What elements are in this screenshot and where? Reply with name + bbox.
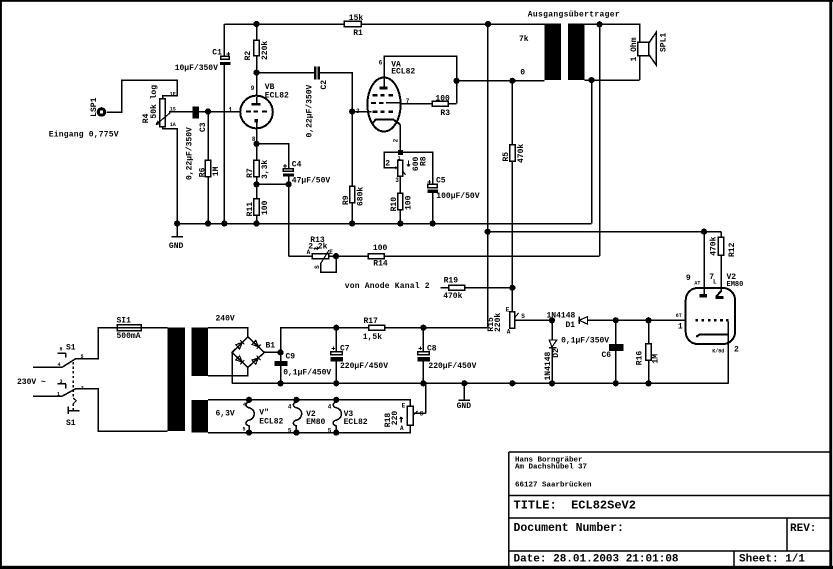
wire feedback riser xyxy=(599,24,601,256)
svg-text:2: 2 xyxy=(385,160,390,169)
svg-text:15k: 15k xyxy=(349,14,364,23)
svg-text:1N4148: 1N4148 xyxy=(547,312,576,321)
resistor R11 100 xyxy=(246,199,270,224)
capacitor C7 220uF/450V xyxy=(330,328,388,384)
junction feedback tap xyxy=(596,21,602,27)
svg-text:C3: C3 xyxy=(199,122,208,132)
svg-text:1: 1 xyxy=(229,107,233,114)
wire LSP1 to poti top xyxy=(106,80,177,112)
svg-text:6: 6 xyxy=(60,347,63,353)
svg-text:1,5k: 1,5k xyxy=(363,333,382,342)
wire secondary gnd to bus xyxy=(591,80,593,223)
resistor R6 1M xyxy=(199,112,221,224)
svg-text:GND: GND xyxy=(457,402,472,411)
potentiometer R13 2,2k xyxy=(307,236,336,272)
wire switch to transformer primary bottom xyxy=(76,389,167,432)
svg-text:6T: 6T xyxy=(676,313,682,319)
wire HV secondary to bridge AC2 xyxy=(208,367,248,375)
wire V8 cathode down xyxy=(256,128,258,160)
svg-text:R16: R16 xyxy=(636,351,645,366)
wire B+ rail after R17 xyxy=(385,327,488,329)
junction R13 wiper node xyxy=(333,253,339,259)
wire wiper to C3 xyxy=(169,111,193,113)
transformer TR1 heater winding 6,3V xyxy=(191,400,208,433)
svg-text:3: 3 xyxy=(395,177,399,184)
junction D2 bottom rail xyxy=(549,380,555,386)
capacitor C5 100uF/50V xyxy=(400,152,480,223)
svg-text:1: 1 xyxy=(398,156,401,162)
junction B+ riser rail xyxy=(485,21,491,27)
transformer output secondary xyxy=(568,24,584,80)
junction cathode pentode node xyxy=(398,150,403,155)
resistor R19 470k xyxy=(443,276,512,300)
wire B+ rail y24 xyxy=(224,23,344,25)
svg-text:R3: R3 xyxy=(440,109,450,118)
junction C6 tap xyxy=(613,317,619,323)
heater V'' ECL82 xyxy=(243,397,284,436)
svg-text:AT: AT xyxy=(694,280,700,286)
svg-text:4: 4 xyxy=(243,402,246,408)
wire bridge plus to node xyxy=(264,351,280,353)
svg-text:R5: R5 xyxy=(502,152,511,162)
transformer TR1 primary winding xyxy=(167,328,185,431)
potentiometer R4 50k log xyxy=(142,85,176,128)
resistor R5 470k xyxy=(502,81,526,312)
svg-text:C9: C9 xyxy=(286,352,296,361)
svg-text:Eingang 0,775V: Eingang 0,775V xyxy=(49,130,119,139)
svg-text:470k: 470k xyxy=(710,236,719,255)
junction R16 tap xyxy=(645,317,651,323)
junction R10 bottom xyxy=(397,220,403,226)
svg-text:S1: S1 xyxy=(66,344,76,353)
diode B1b xyxy=(252,340,261,349)
svg-text:1: 1 xyxy=(678,322,683,331)
svg-text:R17: R17 xyxy=(364,317,379,326)
svg-text:GND: GND xyxy=(169,242,184,251)
junction secondary gnd tap xyxy=(588,77,594,83)
junction C1 bottom xyxy=(221,220,227,226)
junction R19 R5 R15 node xyxy=(509,285,515,291)
svg-text:1 Ohm: 1 Ohm xyxy=(630,37,639,61)
capacitor C3 0,22uF/350V xyxy=(186,106,209,180)
pad LSP1 xyxy=(90,97,106,116)
svg-text:5: 5 xyxy=(243,427,246,433)
svg-text:A: A xyxy=(400,425,404,432)
wire 0V rail xyxy=(232,382,728,384)
switch S1 xyxy=(57,344,84,429)
svg-text:von Anode Kanal 2: von Anode Kanal 2 xyxy=(345,282,430,291)
diode B1c xyxy=(236,356,245,365)
svg-text:Am Dachshübel 37: Am Dachshübel 37 xyxy=(515,464,587,472)
svg-text:220: 220 xyxy=(391,411,400,426)
svg-text:R8: R8 xyxy=(420,156,429,166)
trimmer R8 600 xyxy=(384,152,428,193)
svg-text:5: 5 xyxy=(288,427,292,434)
svg-text:10µF/350V: 10µF/350V xyxy=(175,64,218,73)
svg-text:0,1µF/350V: 0,1µF/350V xyxy=(561,337,609,346)
svg-text:4: 4 xyxy=(58,362,61,368)
svg-text:240V: 240V xyxy=(216,314,235,323)
svg-text:0: 0 xyxy=(520,69,525,78)
svg-text:0,1µF/450V: 0,1µF/450V xyxy=(283,369,331,378)
capacitor C8 220uF/450V xyxy=(417,328,476,384)
svg-text:Date: 28.01.2003 21:01:08: Date: 28.01.2003 21:01:08 xyxy=(514,554,679,566)
svg-text:220k: 220k xyxy=(261,41,270,60)
wire secondary bottom xyxy=(584,79,639,81)
wire plus node up to B+ rail xyxy=(281,328,369,353)
capacitor C4 47uF/50V xyxy=(283,160,330,256)
svg-text:3: 3 xyxy=(60,379,63,385)
svg-text:Document Number:: Document Number: xyxy=(514,522,624,535)
wire cathode node to C4 xyxy=(257,144,289,169)
svg-text:100: 100 xyxy=(261,200,270,215)
junction D2 tap xyxy=(549,317,555,323)
diode D1 1N4148 xyxy=(547,312,687,330)
wire bridge minus to 0V rail xyxy=(231,352,233,383)
wire heater rail top xyxy=(208,400,410,407)
diode D2 1N4148 xyxy=(544,320,561,383)
resistor R17 1,5k xyxy=(363,317,385,342)
diode B1d xyxy=(252,356,261,365)
svg-text:ECL82: ECL82 xyxy=(259,417,283,426)
junction R2 bottom C2 node xyxy=(253,70,259,76)
wire anode node to C2 xyxy=(257,72,315,74)
resistor R9 680k xyxy=(342,112,366,224)
transformer output Ausgangsuebertrager primary xyxy=(545,24,561,80)
svg-text:100µF/50V: 100µF/50V xyxy=(436,192,479,201)
potentiometer R18 220 humdinger xyxy=(384,383,425,432)
svg-text:680k: 680k xyxy=(357,187,366,206)
resistor R3 100 xyxy=(432,94,456,117)
svg-text:R14: R14 xyxy=(373,259,388,268)
svg-text:6: 6 xyxy=(379,60,383,67)
svg-text:0,22µF/350V: 0,22µF/350V xyxy=(186,127,195,180)
junction VA grid node xyxy=(349,108,355,114)
wire fuse to transformer primary xyxy=(141,327,167,329)
trimmer R15 220k xyxy=(487,306,552,335)
tube VB ECL82 triode xyxy=(229,83,289,143)
resistor R1 15k xyxy=(344,14,363,38)
svg-text:500mA: 500mA xyxy=(117,332,141,341)
svg-text:C7: C7 xyxy=(340,344,350,353)
svg-text:1E: 1E xyxy=(170,92,176,98)
svg-text:D2: D2 xyxy=(552,348,561,358)
resistor R16 1M xyxy=(636,320,661,383)
svg-text:R6: R6 xyxy=(199,167,208,177)
wire mains input N xyxy=(33,395,63,397)
svg-text:S: S xyxy=(314,265,321,269)
wire C3 to V8 grid xyxy=(199,111,241,113)
junction EM80 supply tap xyxy=(485,229,491,235)
diode B1a xyxy=(236,340,245,349)
title block frame xyxy=(509,452,830,566)
svg-text:47µF/50V: 47µF/50V xyxy=(292,177,331,186)
capacitor C2 0,22uF/350V xyxy=(305,66,329,137)
junction screen rail xyxy=(453,78,459,84)
junction C9 bottom xyxy=(277,380,283,386)
junction V8 anode rail xyxy=(253,21,259,27)
svg-text:R19: R19 xyxy=(444,276,459,285)
capacitor C1 10uF/350V xyxy=(175,24,231,224)
wire R14 to secondary feedback riser xyxy=(384,255,599,257)
svg-text:D1: D1 xyxy=(566,321,576,330)
fuse SI1 500mA xyxy=(117,317,142,342)
junction C6 bottom rail xyxy=(613,380,619,386)
svg-text:C6: C6 xyxy=(602,351,612,360)
resistor R12 470k xyxy=(710,232,737,292)
resistor R7 3,3k xyxy=(246,160,270,199)
wire EM80 supply rail xyxy=(488,231,721,233)
wire secondary top to speaker xyxy=(584,24,639,42)
title block text xyxy=(514,457,817,566)
svg-text:R7: R7 xyxy=(246,168,255,178)
junction C5 bottom xyxy=(430,220,436,226)
svg-text:B1: B1 xyxy=(266,342,276,351)
svg-text:V″: V″ xyxy=(259,409,269,418)
svg-text:LSP1: LSP1 xyxy=(90,97,99,116)
svg-text:SPL1: SPL1 xyxy=(660,33,669,52)
svg-text:2: 2 xyxy=(734,346,739,355)
heater V3 ECL82 xyxy=(328,397,368,436)
svg-text:Sheet: 1/1: Sheet: 1/1 xyxy=(739,554,805,566)
wire VA grid xyxy=(352,111,371,113)
svg-text:R10: R10 xyxy=(390,197,399,212)
svg-text:EM80: EM80 xyxy=(306,418,325,427)
svg-text:ECL82: ECL82 xyxy=(265,92,289,101)
resistor R14 100 xyxy=(368,244,388,268)
junction R9 bottom xyxy=(349,220,355,226)
svg-text:R12: R12 xyxy=(728,242,737,257)
bridge rectifier B1 xyxy=(232,337,275,368)
svg-text:100: 100 xyxy=(373,244,388,253)
junction R6 bottom xyxy=(205,220,211,226)
wire heater rail bottom xyxy=(208,425,410,432)
wire VA screen pin6 xyxy=(384,56,457,104)
svg-text:R9: R9 xyxy=(342,195,351,205)
wire R19 open end xyxy=(440,287,448,289)
wire screen rail to transformer 0 tap xyxy=(457,80,545,82)
svg-text:R1: R1 xyxy=(353,29,363,38)
svg-text:100: 100 xyxy=(435,94,450,103)
svg-text:Ausgangsübertrager: Ausgangsübertrager xyxy=(528,11,620,20)
junction R7 bottom xyxy=(253,181,259,187)
svg-text:C4: C4 xyxy=(292,160,302,169)
svg-text:E: E xyxy=(329,249,333,256)
transformer TR1 HV secondary winding 240V xyxy=(191,328,208,376)
junction R12 supply tap xyxy=(701,229,707,235)
wire switch to fuse xyxy=(76,328,117,359)
svg-text:220µF/450V: 220µF/450V xyxy=(340,362,388,371)
svg-text:ECL82: ECL82 xyxy=(391,67,415,76)
junction R6 top xyxy=(205,108,211,114)
resistor R10 100 xyxy=(390,193,413,224)
svg-text:ECL82: ECL82 xyxy=(344,418,368,427)
svg-text:1: 1 xyxy=(57,391,60,397)
junction C7 bottom xyxy=(333,380,339,386)
wire HV secondary to bridge AC1 xyxy=(208,328,248,337)
svg-text:S: S xyxy=(420,410,424,417)
svg-text:E: E xyxy=(402,402,406,409)
wire VA cathode pin2 xyxy=(399,125,401,153)
svg-text:C1: C1 xyxy=(212,49,222,58)
svg-text:2: 2 xyxy=(393,138,400,142)
svg-text:1A: 1A xyxy=(170,122,176,128)
svg-text:4: 4 xyxy=(328,404,332,411)
svg-text:C8: C8 xyxy=(427,344,437,353)
wire B+ riser x487.6 xyxy=(487,24,489,328)
svg-text:230V ~: 230V ~ xyxy=(17,378,46,387)
svg-text:100: 100 xyxy=(405,195,414,210)
svg-text:9: 9 xyxy=(251,85,255,92)
wire R13 to R14 xyxy=(329,255,369,257)
svg-text:50k log: 50k log xyxy=(150,85,159,119)
junction C7 top xyxy=(333,325,339,331)
svg-text:220µF/450V: 220µF/450V xyxy=(428,362,476,371)
wire poti bottom to ground bus xyxy=(163,127,178,224)
svg-text:1M: 1M xyxy=(651,354,660,364)
capacitor C6 0,1uF/350V xyxy=(561,320,623,383)
svg-text:470k: 470k xyxy=(517,144,526,163)
svg-text:4: 4 xyxy=(288,404,292,411)
svg-text:3,3k: 3,3k xyxy=(261,160,270,179)
junction R11 bottom xyxy=(253,220,259,226)
svg-text:C5: C5 xyxy=(436,177,446,186)
svg-text:A: A xyxy=(307,249,311,256)
tube V2 EM80 xyxy=(676,273,744,383)
speaker SPL1 xyxy=(630,33,668,81)
wire VA anode pin7 to R3 xyxy=(401,103,432,105)
svg-text:S: S xyxy=(521,313,525,320)
junction cathode node xyxy=(253,141,259,147)
junction R15 bottom rail xyxy=(509,380,515,386)
wire EM80 target pin xyxy=(703,232,705,294)
svg-text:R2: R2 xyxy=(244,51,253,61)
tube VA ECL82 pentode xyxy=(356,60,415,143)
svg-text:L: L xyxy=(713,279,717,286)
wire mains input L xyxy=(33,366,63,368)
junction GND tap xyxy=(461,380,467,386)
svg-text:0,22µF/350V: 0,22µF/350V xyxy=(305,84,314,137)
svg-text:66127 Saarbrücken: 66127 Saarbrücken xyxy=(515,482,592,490)
junction C8 bottom xyxy=(420,380,426,386)
svg-text:C2: C2 xyxy=(320,80,329,90)
junction C8 top xyxy=(420,325,426,331)
svg-text:5: 5 xyxy=(328,427,332,434)
svg-text:E: E xyxy=(506,306,510,313)
junction bridge plus node xyxy=(277,349,283,355)
wire R7 bottom to C4 bottom xyxy=(257,183,289,185)
svg-text:1M: 1M xyxy=(212,166,221,176)
svg-text:REV:: REV: xyxy=(790,523,816,535)
svg-text:9: 9 xyxy=(686,274,691,283)
heater V2 EM80 xyxy=(288,397,326,436)
svg-text:R11: R11 xyxy=(246,202,255,217)
resistor R2 220k xyxy=(244,24,270,96)
svg-text:K/8d: K/8d xyxy=(712,348,724,354)
svg-text:S1: S1 xyxy=(66,419,76,428)
svg-text:7k: 7k xyxy=(519,35,529,44)
svg-text:SI1: SI1 xyxy=(117,317,132,326)
svg-text:TITLE: ECL82SeV2: TITLE: ECL82SeV2 xyxy=(514,499,636,513)
svg-text:A: A xyxy=(507,329,511,336)
ground GND signal xyxy=(169,224,184,251)
ground GND psu xyxy=(457,383,472,411)
svg-text:470k: 470k xyxy=(443,292,462,301)
svg-text:2,2k: 2,2k xyxy=(308,243,327,252)
svg-text:6,3V: 6,3V xyxy=(216,409,235,418)
wire ground bus xyxy=(177,223,591,225)
capacitor C9 0,1uF/450V xyxy=(275,352,332,383)
junction R5 top xyxy=(509,78,515,84)
junction R16 bottom rail xyxy=(645,380,651,386)
junction gnd bus left xyxy=(174,220,180,226)
wire C2 to VA grid node xyxy=(320,73,352,112)
svg-text:220k: 220k xyxy=(494,313,503,332)
svg-text:EM80: EM80 xyxy=(727,281,744,289)
wire C4 to R13 xyxy=(289,255,313,257)
